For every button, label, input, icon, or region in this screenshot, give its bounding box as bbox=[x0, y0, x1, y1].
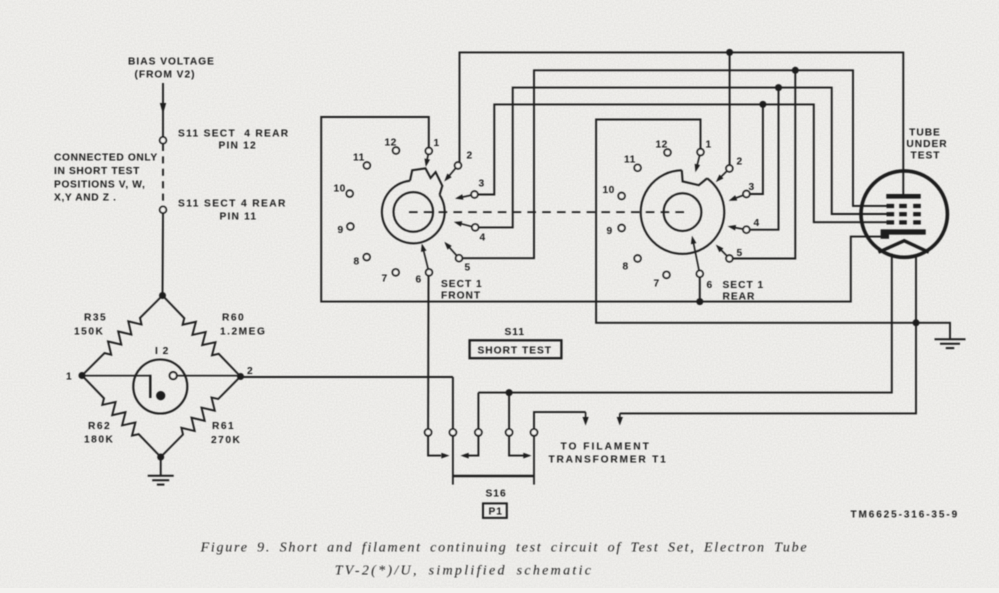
resistor R61 270K bbox=[161, 377, 241, 458]
wiper S16 contact 3 arrow bbox=[468, 436, 478, 456]
dashed shaft line front-to-rear bbox=[409, 211, 685, 213]
svg-text:1: 1 bbox=[706, 140, 712, 151]
tube heater caret bbox=[879, 241, 929, 253]
contact 1 of S11 sect 1 front bbox=[426, 148, 433, 155]
svg-text:1.2MEG: 1.2MEG bbox=[220, 327, 266, 338]
svg-text:SECT 1: SECT 1 bbox=[723, 280, 765, 291]
contact 5 of S11 sect 1 rear bbox=[726, 255, 733, 262]
node 2 (bridge right) bbox=[237, 373, 244, 380]
svg-text:TV-2(*)/U, simplified schemati: TV-2(*)/U, simplified schematic bbox=[335, 564, 594, 579]
tube top plate bar bbox=[886, 194, 920, 199]
wiper arrow from contact 3 front bbox=[462, 195, 471, 197]
junction rear contact 6 on loop bbox=[696, 298, 703, 305]
junction line2 to rear contact 5 bbox=[792, 67, 799, 74]
svg-text:TM6625-316-35-9: TM6625-316-35-9 bbox=[851, 510, 960, 521]
svg-text:10: 10 bbox=[603, 185, 615, 196]
svg-text:PIN 12: PIN 12 bbox=[219, 141, 257, 152]
svg-text:TUBE: TUBE bbox=[909, 128, 941, 139]
svg-text:R62: R62 bbox=[88, 421, 111, 432]
contact 11 of S11 sect 1 rear bbox=[634, 165, 641, 172]
contact 2 of S11 sect 1 front bbox=[455, 162, 462, 169]
rotor inner circle (front) bbox=[394, 192, 434, 232]
svg-text:5: 5 bbox=[737, 248, 743, 259]
wiper arrow from contact 2 rear bbox=[721, 171, 727, 177]
svg-text:SECT 1: SECT 1 bbox=[441, 279, 483, 290]
wire pin11 to bridge top node bbox=[162, 213, 165, 295]
contact 9 of S11 sect 1 front bbox=[347, 223, 354, 230]
svg-text:150K: 150K bbox=[74, 327, 104, 338]
svg-text:CONNECTED ONLY: CONNECTED ONLY bbox=[54, 153, 158, 164]
svg-text:9: 9 bbox=[338, 225, 344, 236]
switch contact S11 sect 4 rear pin 11 bbox=[160, 207, 167, 214]
svg-text:4: 4 bbox=[480, 233, 486, 244]
svg-text:6: 6 bbox=[707, 280, 713, 291]
svg-text:2: 2 bbox=[247, 366, 254, 377]
svg-text:SHORT TEST: SHORT TEST bbox=[478, 346, 553, 357]
svg-text:S11 SECT 4 REAR: S11 SECT 4 REAR bbox=[178, 129, 289, 140]
rotary switch S11 sect 1 front rotor bbox=[382, 181, 445, 244]
node 1 (bridge left) bbox=[79, 372, 86, 379]
wire dashed connection pin12 to pin11 bbox=[162, 144, 164, 206]
tube cathode bar with foot bbox=[881, 229, 926, 238]
contact 4 of S11 sect 1 front bbox=[472, 224, 479, 231]
wire rear contact 3 riser bbox=[750, 104, 763, 194]
wire node 2 to S16 contact 2 bbox=[241, 376, 453, 378]
box P1 bbox=[483, 503, 507, 518]
S16 bracket left tick bbox=[452, 436, 454, 485]
svg-text:4: 4 bbox=[754, 218, 760, 229]
junction line3 to rear contact 4 bbox=[775, 84, 782, 91]
svg-text:S16: S16 bbox=[486, 489, 507, 500]
contact 8 of S11 sect 1 front bbox=[363, 254, 370, 261]
switch contact S11 sect 4 rear pin 12 bbox=[160, 137, 167, 144]
contact 6 of S11 sect 1 front bbox=[426, 269, 433, 276]
wiper arrow from contact 4 front bbox=[461, 224, 472, 227]
node bridge bottom junction bbox=[157, 454, 164, 461]
svg-text:FRONT: FRONT bbox=[441, 291, 481, 302]
wiper S16 contact 1 arrow bbox=[428, 436, 441, 456]
svg-text:3: 3 bbox=[749, 182, 755, 193]
svg-text:(FROM V2): (FROM V2) bbox=[134, 70, 195, 81]
svg-text:S11: S11 bbox=[505, 327, 526, 338]
wire tube heater left lead to S16 bbox=[478, 254, 891, 393]
rotor inner circle (rear) bbox=[664, 193, 702, 231]
wire front contact 6 to S16 contact 1 bbox=[427, 276, 429, 430]
wire rear contact 2 riser bbox=[729, 52, 731, 165]
svg-text:12: 12 bbox=[656, 140, 668, 151]
svg-text:IN SHORT TEST: IN SHORT TEST bbox=[54, 166, 140, 177]
svg-text:R61: R61 bbox=[212, 421, 235, 432]
lamp terminal circle bbox=[170, 372, 177, 379]
svg-text:TO FILAMENT: TO FILAMENT bbox=[561, 441, 651, 452]
wire bridge bottom to ground bbox=[160, 460, 162, 476]
contact 10 of S11 sect 1 rear bbox=[618, 193, 625, 200]
svg-text:BIAS VOLTAGE: BIAS VOLTAGE bbox=[128, 57, 215, 68]
wiper arrow from contact 3 rear bbox=[735, 195, 743, 198]
svg-text:8: 8 bbox=[623, 262, 629, 273]
svg-text:180K: 180K bbox=[84, 435, 114, 446]
S16 bracket bar bbox=[453, 475, 534, 477]
svg-text:9: 9 bbox=[607, 226, 613, 237]
wire rear contact 6 drop bbox=[699, 277, 701, 302]
wiper arrow from contact 5 front bbox=[449, 247, 457, 256]
svg-text:8: 8 bbox=[354, 257, 360, 268]
contact 12 of S11 sect 1 front bbox=[393, 147, 400, 154]
svg-text:270K: 270K bbox=[211, 435, 241, 446]
svg-text:3: 3 bbox=[479, 179, 485, 190]
svg-text:1: 1 bbox=[434, 138, 440, 149]
wire line3: front contact 4 to tube grid row 2 bbox=[479, 88, 889, 228]
wire S16 contact 5 to filament transformer arrow bbox=[534, 412, 586, 429]
svg-text:S11 SECT 4 REAR: S11 SECT 4 REAR bbox=[178, 199, 287, 210]
svg-text:7: 7 bbox=[654, 279, 660, 290]
wire rear contact 5 riser bbox=[733, 70, 796, 258]
svg-text:X,Y AND Z .: X,Y AND Z . bbox=[54, 193, 117, 204]
svg-text:R60: R60 bbox=[222, 313, 245, 324]
resistor R35 150K bbox=[82, 296, 163, 376]
svg-text:POSITIONS V, W,: POSITIONS V, W, bbox=[54, 180, 145, 191]
contact 5 of S11 sect 1 front bbox=[456, 255, 463, 262]
wire rear contact 1 to ground bus bbox=[596, 120, 950, 339]
contact 10 of S11 sect 1 front bbox=[346, 190, 353, 197]
arrow to filament transformer (left) bbox=[585, 412, 587, 418]
contact 12 of S11 sect 1 rear bbox=[664, 149, 671, 156]
svg-text:I 2: I 2 bbox=[155, 346, 169, 357]
lamp left electrode bbox=[149, 375, 151, 398]
contact 7 of S11 sect 1 rear bbox=[663, 272, 670, 279]
svg-text:2: 2 bbox=[737, 157, 743, 168]
contact 2 of S16 bbox=[450, 429, 457, 436]
resistor R62 180K bbox=[82, 376, 161, 458]
junction line4 to rear contact 3 bbox=[759, 101, 766, 108]
contact 4 of S11 sect 1 rear bbox=[743, 226, 750, 233]
svg-text:TRANSFORMER T1: TRANSFORMER T1 bbox=[549, 454, 668, 465]
svg-text:UNDER: UNDER bbox=[906, 139, 947, 150]
svg-text:R35: R35 bbox=[84, 313, 107, 324]
wire node1 to lamp electrode bbox=[82, 375, 150, 377]
contact 3 of S11 sect 1 rear bbox=[743, 191, 750, 198]
contact 2 of S11 sect 1 rear bbox=[726, 165, 733, 172]
contact 11 of S11 sect 1 front bbox=[364, 162, 371, 169]
svg-text:11: 11 bbox=[624, 155, 636, 166]
junction S16 contact 4 feed bbox=[506, 389, 513, 396]
wiper arrow from contact 6 rear bbox=[693, 243, 699, 271]
svg-text:10: 10 bbox=[334, 184, 346, 195]
wiper arrow from contact 1 front bbox=[427, 154, 428, 160]
contact 1 of S11 sect 1 rear bbox=[697, 149, 704, 156]
svg-text:6: 6 bbox=[416, 275, 422, 286]
arrow to filament transformer (right) bbox=[619, 413, 621, 418]
wiper S16 contact 4 arrow bbox=[509, 436, 524, 456]
svg-text:1: 1 bbox=[66, 372, 73, 383]
wiper arrow from contact 6 front bbox=[424, 250, 429, 269]
wire front contact 1 to rear contact 6 to tube cathode (long loop) bbox=[321, 117, 882, 302]
S16 bracket right tick bbox=[533, 436, 535, 485]
wiper arrow from contact 1 rear bbox=[697, 155, 700, 165]
rotary switch S11 sect 1 rear rotor bbox=[641, 170, 725, 254]
contact 9 of S11 sect 1 rear bbox=[618, 225, 625, 232]
wire rear contact 4 riser bbox=[750, 88, 779, 230]
lamp gas dot bbox=[156, 391, 165, 400]
svg-text:2: 2 bbox=[467, 151, 473, 162]
wire line1: front contact 2 to tube top cap bbox=[460, 52, 904, 196]
tube grid dashes bbox=[887, 204, 895, 208]
wiper arrow from contact 2 front bbox=[449, 168, 456, 176]
svg-text:7: 7 bbox=[382, 274, 388, 285]
svg-text:TEST: TEST bbox=[910, 151, 940, 162]
svg-text:11: 11 bbox=[353, 153, 365, 164]
contact 6 of S11 sect 1 rear bbox=[697, 271, 704, 278]
wire node2 to lamp terminal bbox=[176, 375, 240, 377]
svg-text:5: 5 bbox=[465, 263, 471, 274]
wire bias voltage input with arrow bbox=[162, 83, 164, 137]
contact 1 of S16 bbox=[425, 429, 432, 436]
ground (bridge) bbox=[148, 475, 174, 477]
box SHORT TEST bbox=[470, 340, 562, 358]
junction line1 to rear contact 2 bbox=[726, 49, 733, 56]
ground (tube) bbox=[935, 338, 966, 340]
contact 4 of S16 bbox=[506, 429, 513, 436]
contact 3 of S16 bbox=[475, 429, 482, 436]
wiper arrow from contact 5 rear bbox=[721, 250, 727, 257]
svg-text:12: 12 bbox=[385, 138, 397, 149]
contact 5 of S16 bbox=[531, 429, 538, 436]
wiper arrow from contact 4 rear bbox=[735, 228, 744, 230]
contact 7 of S11 sect 1 front bbox=[392, 269, 399, 276]
contact 3 of S11 sect 1 front bbox=[471, 191, 478, 198]
wire line2: front contact 5 to tube grid row 1 bbox=[462, 70, 888, 258]
tube V envelope bbox=[861, 171, 947, 257]
svg-text:Figure 9. Short and filament c: Figure 9. Short and filament continuing … bbox=[200, 541, 809, 556]
wire line4: front contact 3 to tube grid row 3 bbox=[478, 104, 888, 222]
node bridge top junction bbox=[159, 292, 166, 299]
svg-text:PIN 11: PIN 11 bbox=[220, 212, 258, 223]
resistor R60 1.2MEG bbox=[163, 296, 241, 377]
junction tube heater to ground bus bbox=[913, 319, 920, 326]
svg-text:P1: P1 bbox=[489, 507, 503, 518]
wire tube heater right lead to filament transformer bbox=[620, 254, 916, 413]
contact 8 of S11 sect 1 rear bbox=[634, 255, 641, 262]
